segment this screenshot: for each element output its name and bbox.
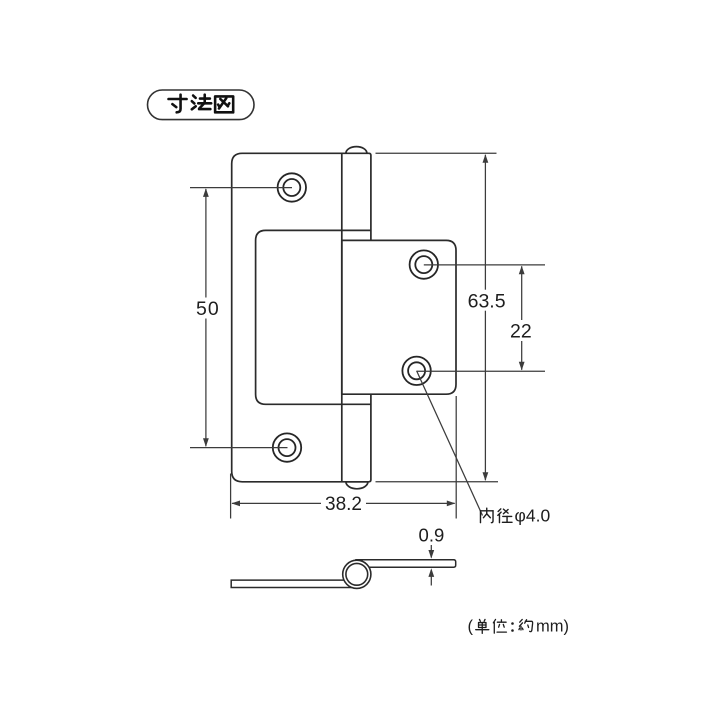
- svg-text:38.2: 38.2: [325, 494, 362, 515]
- svg-text:63.5: 63.5: [468, 290, 506, 312]
- svg-text:mm): mm): [536, 618, 569, 636]
- svg-text:φ4.0: φ4.0: [515, 506, 551, 526]
- svg-text:0.9: 0.9: [419, 524, 445, 545]
- svg-text:(: (: [468, 618, 474, 636]
- svg-text:50: 50: [196, 298, 220, 320]
- svg-text:22: 22: [510, 320, 532, 342]
